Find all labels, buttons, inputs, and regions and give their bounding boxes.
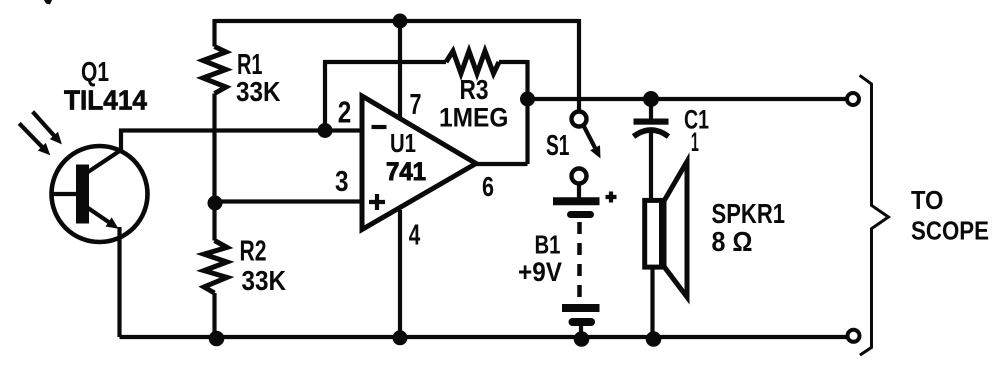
wire pin6 output from tip: [474, 162, 528, 166]
speaker SPKR1 cone: [664, 162, 687, 298]
wire feedback left vertical: [323, 62, 327, 131]
resistor R2 zigzag: [204, 241, 227, 294]
svg-text:7: 7: [410, 89, 422, 121]
op-amp U1 triangle: [362, 96, 476, 230]
svg-text:TO: TO: [911, 185, 944, 215]
transistor Q1 base bar: [76, 165, 89, 224]
svg-text:+9V: +9V: [518, 257, 562, 287]
svg-text:U1: U1: [390, 128, 416, 158]
svg-text:741: 741: [386, 158, 426, 186]
switch S1 arm arrow: [584, 126, 598, 153]
resistor R1 zigzag: [203, 47, 226, 94]
op-amp plus sign: [369, 194, 385, 210]
wire top rail: [215, 19, 580, 23]
wire pin4 vertical: [398, 210, 402, 337]
svg-text:R2: R2: [240, 236, 267, 268]
node battery bottom junction dot: [574, 331, 590, 347]
wire speaker to rail lead: [650, 268, 654, 337]
svg-text:8 Ω: 8 Ω: [712, 226, 753, 257]
svg-text:R3: R3: [460, 74, 489, 105]
svg-text:S1: S1: [546, 130, 570, 162]
speaker SPKR1 frame rect: [645, 200, 662, 267]
switch S1 bottom contact circle: [572, 169, 587, 184]
wire R1 top lead: [212, 19, 216, 47]
capacitor C1 curved plate: [634, 130, 669, 137]
node chain bottom junction dot: [209, 331, 225, 347]
wire feedback right vertical down to output: [525, 60, 529, 164]
transistor Q1 collector diagonal: [88, 150, 121, 172]
transistor Q1 base lead: [52, 192, 77, 196]
wire pin7 vertical: [398, 21, 402, 122]
node divider junction dot: [208, 196, 223, 211]
capacitor C1 straight plate: [634, 119, 669, 125]
svg-text:3: 3: [335, 166, 349, 198]
resistor R3 zigzag: [446, 51, 499, 74]
wire pin3 line from divider node: [215, 199, 363, 203]
node speaker bottom junction dot: [646, 331, 662, 347]
node pin7 top rail junction dot: [393, 14, 408, 29]
battery B1 bottom long plate: [562, 304, 600, 312]
battery B1 dashed middle: [577, 222, 582, 301]
light arrow 2: [19, 123, 45, 150]
battery B1 bottom short plate: [573, 318, 592, 326]
wire feedback top right segment: [499, 60, 528, 64]
wire bottom rail: [120, 335, 848, 339]
op-amp minus sign: [372, 125, 387, 129]
node pin2 feedback junction dot: [318, 123, 333, 138]
wire emitter drop: [117, 227, 121, 337]
svg-text:33K: 33K: [236, 76, 281, 107]
svg-text:4: 4: [409, 220, 421, 252]
node output junction dot: [520, 92, 535, 107]
svg-text:1: 1: [691, 127, 699, 157]
svg-text:SCOPE: SCOPE: [911, 216, 989, 246]
transistor Q1 circle: [52, 146, 148, 242]
svg-text:B1: B1: [535, 230, 561, 260]
light arrow 1: [33, 112, 58, 139]
wire C1 to speaker lead: [649, 132, 653, 200]
wire S1 to battery lead: [577, 184, 581, 198]
node pin4 bottom rail junction dot: [393, 330, 408, 345]
terminal top circle: [847, 93, 859, 105]
battery B1 plus plate long: [553, 197, 600, 205]
svg-text:6: 6: [482, 171, 494, 202]
brace to scope: [860, 75, 889, 355]
wire battery to rail lead: [579, 326, 583, 337]
svg-text:TIL414: TIL414: [64, 85, 147, 116]
svg-text:33K: 33K: [242, 265, 287, 296]
svg-text:1MEG: 1MEG: [439, 103, 509, 133]
battery B1 short plate: [571, 211, 591, 218]
node C1 junction dot: [643, 91, 659, 107]
wire R2 bottom lead: [212, 293, 216, 337]
stray mark top edge: [44, 0, 52, 5]
svg-text:2: 2: [338, 95, 352, 130]
wire output line to scope terminal: [528, 97, 848, 101]
switch S1 top contact circle: [572, 112, 587, 127]
terminal bottom circle: [848, 330, 860, 342]
wire collector riser and pin2 line: [121, 131, 362, 151]
wire feedback top left segment: [323, 60, 446, 64]
svg-text:Q1: Q1: [81, 56, 109, 87]
transistor Q1 emitter diagonal with arrowhead: [88, 208, 113, 225]
wire S1 drop from top rail: [577, 19, 581, 112]
wire chain R1-R2 middle lead: [212, 94, 216, 241]
svg-text:SPKR1: SPKR1: [712, 198, 786, 229]
wire C1 top lead: [649, 99, 653, 119]
battery B1 plus sign: [606, 192, 617, 203]
